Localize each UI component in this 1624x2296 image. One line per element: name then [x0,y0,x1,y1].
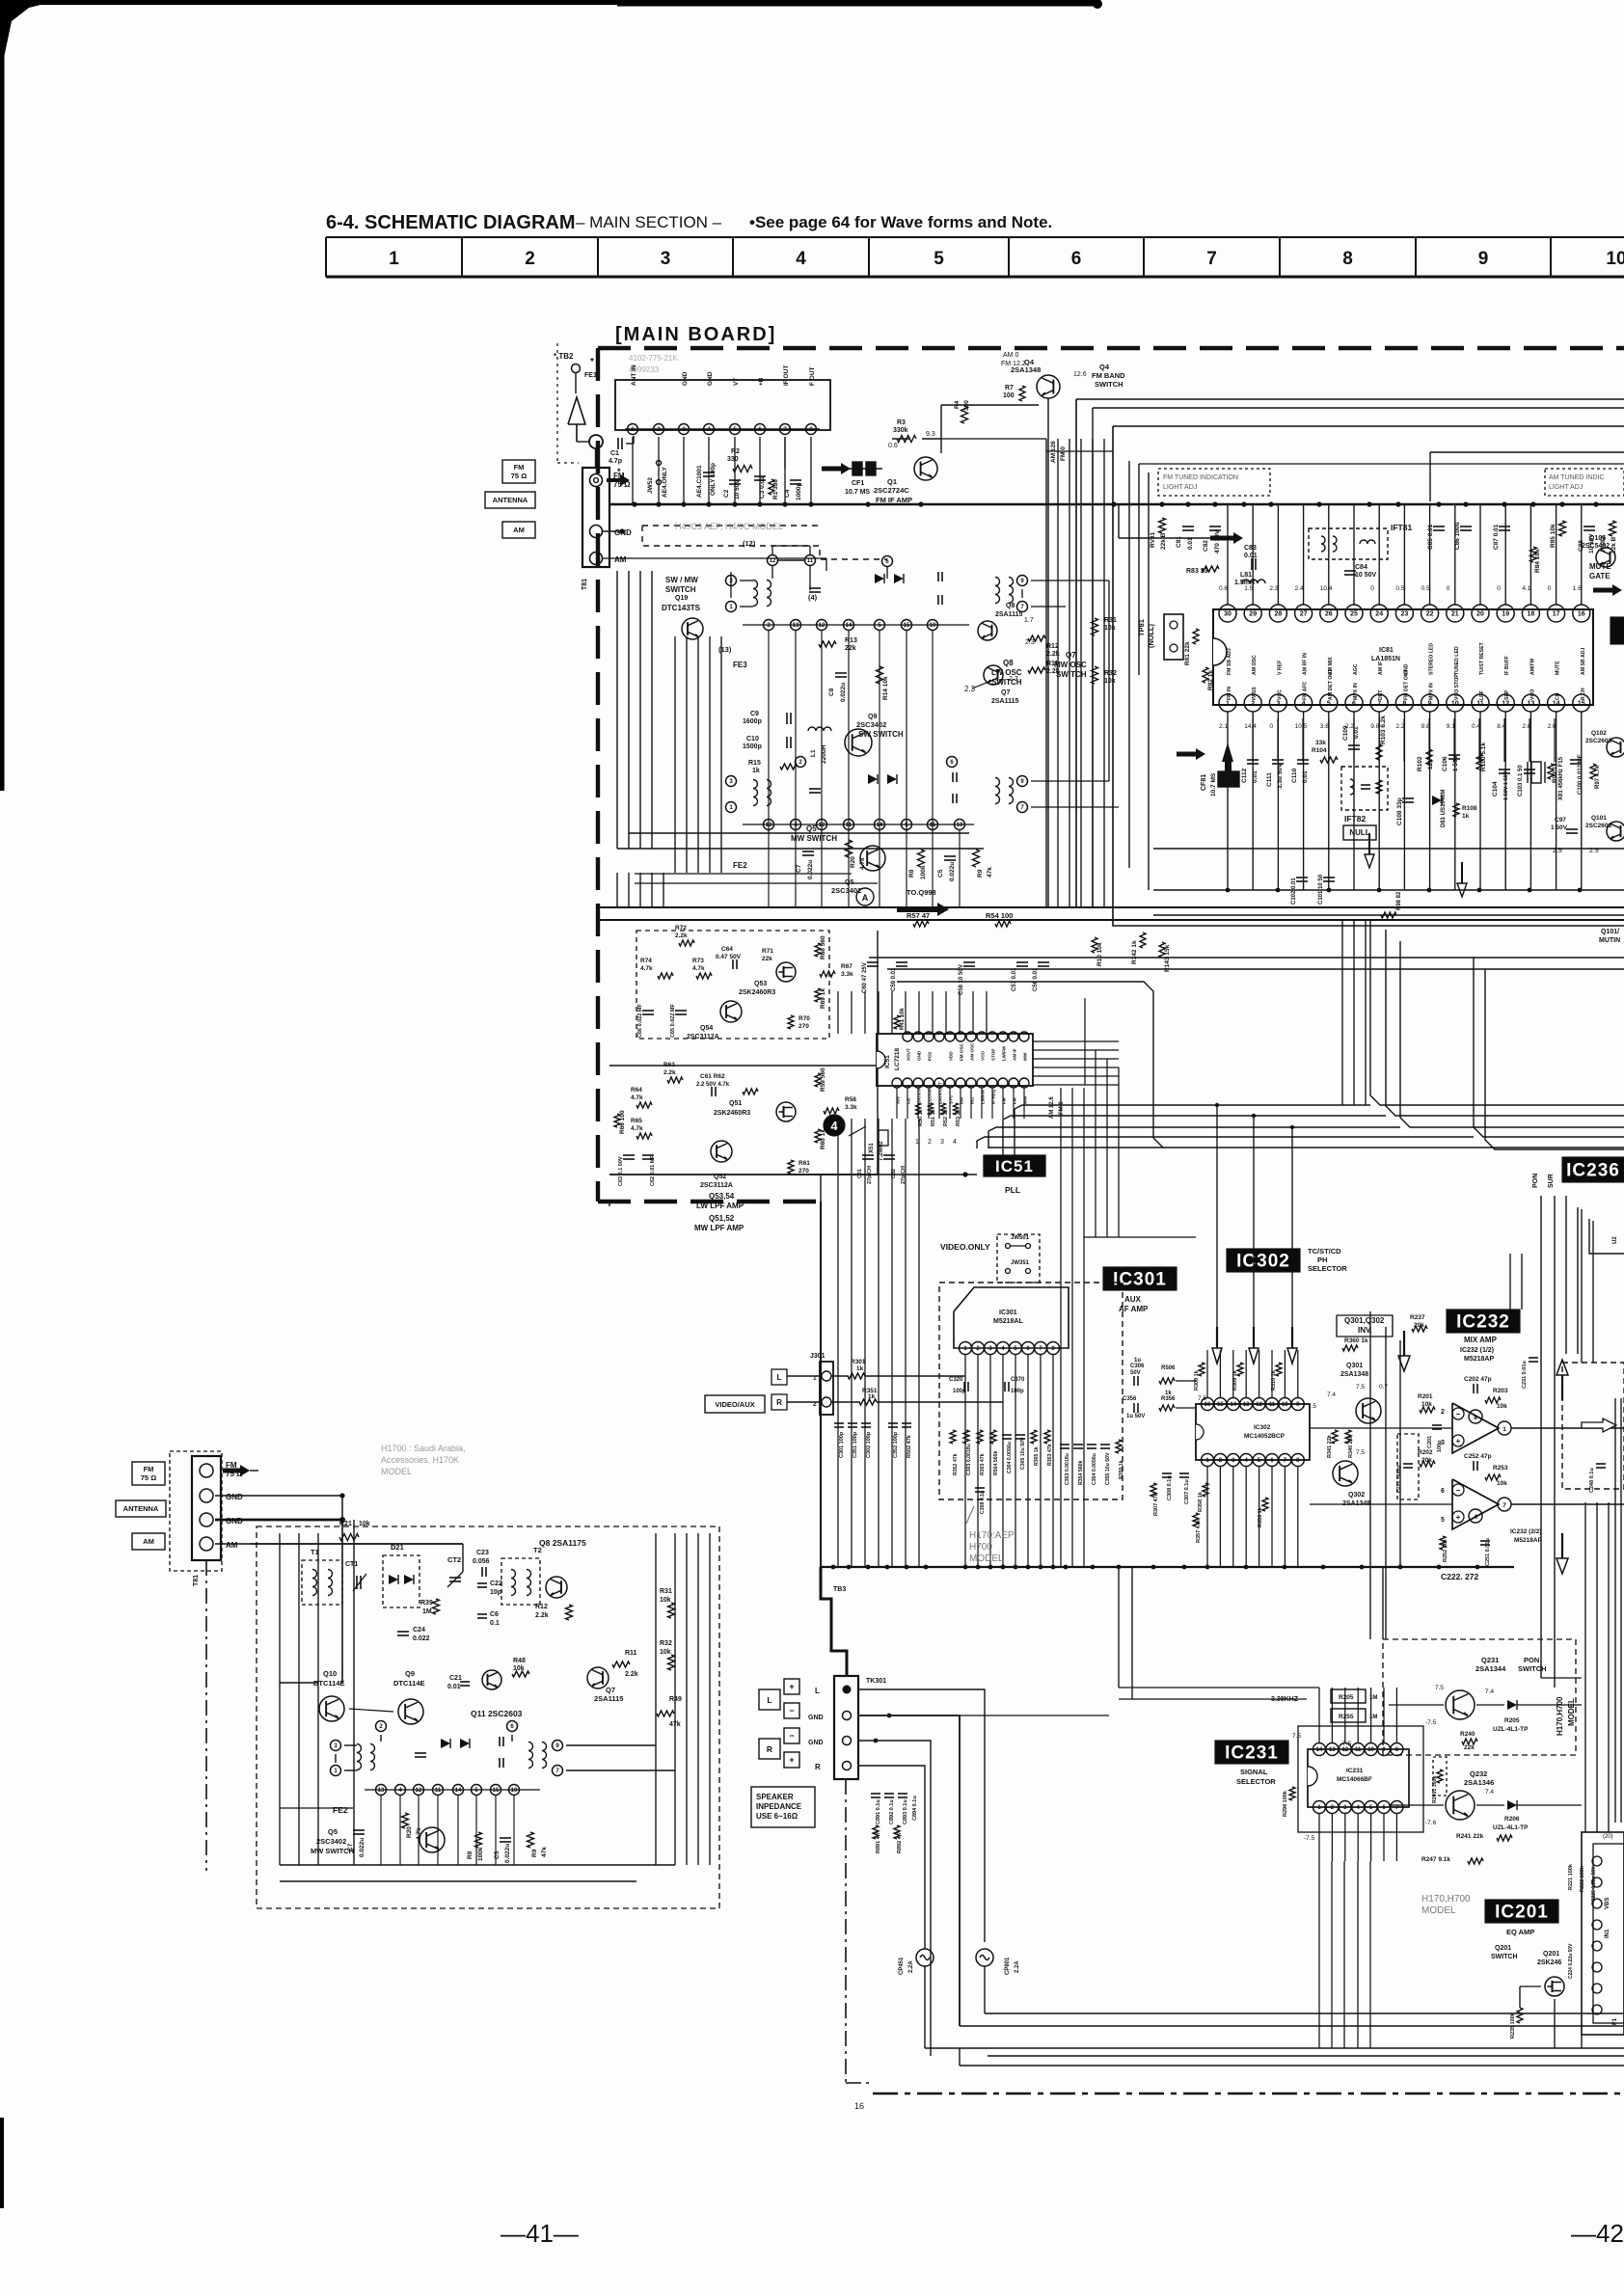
junction dots [874,1739,879,1743]
svg-text:7.5: 7.5 [1435,1685,1444,1691]
C51 C52 27p [862,1154,874,1156]
svg-text:R240: R240 [1460,1731,1475,1738]
svg-text:R: R [767,1744,772,1754]
svg-text:10 50V: 10 50V [1355,572,1377,579]
svg-text:MUTIN: MUTIN [1599,937,1620,944]
svg-text:CF81: CF81 [1201,774,1207,791]
C4 1000p [790,479,801,481]
svg-text:75 Ω: 75 Ω [141,1473,156,1482]
ANTENNA label box 2 [116,1500,166,1517]
svg-text:R66 100: R66 100 [619,1110,626,1134]
C112 0.01 [1247,759,1259,761]
svg-text:MW: MW [1023,1095,1028,1104]
link wires IC51 bus to mid horizontals [1015,1105,1370,1175]
Q231 PON switch transistor [1446,1690,1475,1719]
svg-text:R65: R65 [631,1118,642,1124]
svg-text:CT1: CT1 [345,1561,358,1568]
svg-text:10: 10 [1451,701,1459,708]
right edge nested boxes [1565,1196,1567,1354]
R21 10k [339,1534,359,1541]
svg-text:13: 13 [1243,1402,1250,1408]
svg-text:SUR: SUR [1548,1174,1555,1188]
svg-text:+: + [1456,1437,1461,1445]
svg-text:L: L [777,1373,782,1382]
svg-text:F OUT: F OUT [809,366,816,386]
svg-text:M5218AL: M5218AL [993,1318,1023,1325]
svg-text:0: 0 [1269,723,1273,730]
svg-text:SELECTOR: SELECTOR [1308,1264,1347,1273]
R50-R53 1k resistors [916,1103,921,1115]
IC81 body [1213,609,1593,705]
output wires from opamps [1511,1427,1624,1429]
TK301 speaker connector [834,1676,858,1779]
R85 10k [1559,521,1566,536]
long vertical wires center [674,636,676,873]
svg-text:0.022: 0.022 [413,1635,430,1642]
svg-text:FM SB ADJ: FM SB ADJ [1227,648,1232,675]
svg-text:AUX: AUX [1124,1295,1142,1304]
svg-text:15: 15 [1578,701,1585,708]
svg-text:FM: FM [1002,1097,1007,1104]
FE2 coils right [995,778,1000,804]
J301 connector [820,1362,833,1415]
FE3 coils left [753,581,758,607]
svg-text:IN1: IN1 [1605,1929,1610,1938]
svg-text:IC51: IC51 [884,1055,891,1068]
wires IC201 area [1520,1985,1541,1987]
svg-text:R13: R13 [845,637,857,644]
svg-text:R357 47k: R357 47k [1196,1519,1202,1543]
svg-text:R8: R8 [908,869,915,878]
svg-text:MIX AMP: MIX AMP [1464,1336,1498,1344]
svg-text:Q8: Q8 [1006,603,1015,609]
FE2b top pins [376,1721,387,1732]
FE1 block outline [615,380,830,430]
IC302 top pins 16..9 [1202,1398,1214,1411]
C81 0.01 cap [1182,526,1194,527]
svg-text:2SA1115: 2SA1115 [995,611,1023,618]
svg-text:R206: R206 [1504,1816,1520,1823]
C2 10 50V [729,479,741,481]
svg-text:C894 0.1u: C894 0.1u [912,1796,918,1821]
svg-text:C8: C8 [828,688,835,696]
R98 82 [1381,912,1396,918]
svg-text:R237: R237 [1410,1314,1425,1321]
R58 3.3k [824,1108,839,1114]
svg-text:C302 100p: C302 100p [866,1431,872,1458]
hollow arrow down at left of IC232 [1403,1331,1405,1356]
svg-text:CLOCK: CLOCK [928,1088,933,1104]
L1 220uH coil [808,727,831,731]
R103 6.2k [1376,744,1382,760]
svg-text:R341 22k: R341 22k [1327,1434,1333,1458]
arrow up hollow [1561,1375,1563,1400]
svg-text:3: 3 [1276,701,1280,708]
svg-text:R32: R32 [660,1640,672,1647]
svg-text:22k: 22k [762,956,772,962]
C21 0.01 [460,1681,470,1683]
svg-text:R2: R2 [731,448,740,455]
horizontal stubs connecting bundle [941,438,1046,440]
vertical dash-dot line from TK301 down [845,1779,847,2083]
svg-text:1: 1 [389,249,399,269]
svg-text:IC232 (2/2): IC232 (2/2) [1510,1528,1542,1535]
svg-text:L1: L1 [810,749,817,757]
svg-text:C222. 272: C222. 272 [1441,1572,1478,1581]
dash-dot vertical left [205,1560,207,1871]
svg-text:AM TUNED INDIC: AM TUNED INDIC [1549,474,1604,481]
R39 1M [433,1599,440,1614]
svg-text:Q5: Q5 [328,1827,338,1836]
svg-text:2SC2603: 2SC2603 [1585,823,1611,829]
wire T82 AM to FE3 [603,557,826,559]
svg-text:0.022u: 0.022u [807,860,814,879]
svg-text:R20: R20 [406,1826,413,1838]
svg-text:MPX IN: MPX IN [1353,683,1359,700]
svg-text:C6: C6 [490,1611,499,1618]
svg-text:7.4: 7.4 [1327,1391,1336,1398]
svg-text:1600p: 1600p [743,718,762,725]
svg-text:+: + [789,1682,794,1691]
C222 1000p dashed [1397,1434,1419,1499]
svg-text:C81: C81 [1176,536,1182,548]
svg-text:R305 1k: R305 1k [1034,1446,1040,1466]
svg-text:1 50V 1 50V: 1 50V 1 50V [1503,770,1509,800]
svg-text:100p: 100p [1011,1389,1024,1394]
svg-text:R84 10k: R84 10k [1534,549,1541,573]
svg-text:−: − [1456,1486,1461,1495]
long wires to IC302 [1176,1380,1196,1382]
svg-text:F1: F1 [1612,2017,1618,2025]
R235 100k [1517,2008,1523,2023]
svg-text:11: 11 [1355,1747,1362,1753]
svg-text:+: + [789,1755,794,1765]
svg-text:*: * [590,357,594,367]
svg-text:4: 4 [1474,1514,1477,1521]
C111 3.3u 50V [1272,759,1284,761]
svg-text:LIGHT ADJ: LIGHT ADJ [1549,484,1583,491]
C24 0.022 [397,1631,409,1633]
svg-text:75 Ω: 75 Ω [511,472,527,480]
svg-text:−: − [789,1706,794,1715]
svg-text:9: 9 [1478,249,1489,269]
FE2 left pins [726,776,737,787]
main board dashed outline top [598,346,1624,350]
svg-text:C224 0.22u 50V: C224 0.22u 50V [1568,1943,1574,1979]
svg-text:R241 22k: R241 22k [1456,1833,1484,1840]
svg-text:Q10: Q10 [323,1669,337,1678]
svg-text:C305 10u 50V: C305 10u 50V [1020,1437,1026,1470]
svg-text:16: 16 [1578,611,1585,618]
svg-text:22k B: 22k B [1160,532,1167,550]
svg-text:AM SB ADJ: AM SB ADJ [1581,648,1586,675]
R142 1k R143 15k [1140,932,1146,948]
R41 10k [894,1015,900,1029]
svg-text:AM: AM [143,1537,154,1546]
svg-text:11: 11 [1269,1402,1276,1408]
R74 R73 resistors [658,973,673,979]
svg-text:1k: 1k [868,1393,876,1400]
svg-text:27: 27 [1300,611,1308,618]
right frame extra verticals [1148,473,1150,890]
svg-text:R12: R12 [1046,643,1059,650]
svg-text:JW351: JW351 [1011,1260,1030,1266]
IC231 top pins 14..8 [1313,1743,1326,1756]
front-end internal verticals [279,1533,281,1865]
svg-text:14: 14 [1553,701,1560,708]
svg-text:TU/ST RESET: TU/ST RESET [1479,641,1485,675]
svg-text:C104: C104 [1492,781,1499,797]
lamp wires down [924,1966,926,2048]
svg-text:2SA1346: 2SA1346 [1464,1778,1494,1787]
FE2b bottom pin row [376,1785,387,1796]
R12 2.2k bottom left [566,1605,573,1620]
svg-text:R54 100: R54 100 [986,911,1013,920]
svg-text:+: + [1456,1513,1461,1522]
mid horizontal wires at IC232 level [1310,1427,1452,1429]
svg-text:C66 0.022 MF: C66 0.022 MF [637,1004,643,1038]
R356 1k [1159,1405,1175,1411]
svg-text:R83 33: R83 33 [1186,568,1208,575]
svg-text:AM 0: AM 0 [1003,352,1018,359]
tall IC right edge [1582,1832,1624,2035]
component cluster under IC301 right [1060,1444,1069,1445]
C306 1u 50V [1133,1376,1135,1386]
svg-text:•See page 64 for Wave forms an: •See page 64 for Wave forms and Note. [749,213,1052,231]
svg-text:2.2 50V 4.7k: 2.2 50V 4.7k [696,1082,730,1088]
svg-text:7.5: 7.5 [1308,1403,1316,1410]
svg-text:ANTENNA: ANTENNA [123,1504,159,1513]
left vertical wires from connector area [616,571,618,849]
svg-text:R309 1k: R309 1k [1232,1369,1238,1391]
svg-text:R235 100k: R235 100k [1510,2012,1516,2039]
svg-text:FM 0: FM 0 [1060,446,1067,461]
R203 10k [1485,1397,1501,1403]
svg-text:1.5: 1.5 [1244,585,1253,592]
svg-text:2.4: 2.4 [1295,585,1304,592]
svg-text:T81: T81 [582,579,588,590]
svg-text:IFT81: IFT81 [1391,523,1412,532]
svg-text:FM 12.2: FM 12.2 [1001,361,1026,367]
wire corners to right bus [985,2012,1624,2014]
C231 0.01u vertical [1529,1357,1538,1359]
svg-text:47k: 47k [541,1847,548,1857]
svg-text:C62 0.01 MF: C62 0.01 MF [650,1155,656,1186]
svg-text:2: 2 [1251,701,1255,708]
svg-text:C7: C7 [796,864,802,873]
svg-text:10k: 10k [1421,1401,1432,1408]
svg-text:XIN: XIN [896,1096,901,1104]
svg-text:Q1: Q1 [887,477,897,486]
svg-text:6: 6 [1071,249,1082,269]
C8 0.022u vertical [835,672,847,674]
transistor Q4 FM band switch [1037,375,1060,398]
IC301 pins 1-8 [960,1342,972,1355]
svg-text:10.7 MS: 10.7 MS [845,489,870,496]
svg-text:7.5: 7.5 [1292,1733,1301,1740]
wire Q4 down [1047,398,1049,907]
svg-text:2: 2 [1441,1409,1445,1416]
svg-text:AM/FM: AM/FM [1529,659,1535,675]
svg-text:V REF: V REF [1277,661,1283,675]
vertical bundle left of IC81 [1045,439,1047,907]
C10 1500p [786,737,788,748]
svg-text:30: 30 [1224,611,1232,618]
svg-text:FM TUNED INDICATION: FM TUNED INDICATION [1163,474,1238,481]
svg-text:R51 1k: R51 1k [931,1108,936,1126]
svg-text:X81 456kHz F15: X81 456kHz F15 [1558,756,1564,800]
R9 47k vertical [973,850,980,867]
AEP model dashed region [642,525,820,527]
Q102 transistor right edge [1607,738,1624,757]
IC81 bottom pin row 1..15 [1219,694,1236,712]
svg-text:SPEAKER: SPEAKER [756,1793,794,1801]
R48 10k [512,1671,529,1677]
svg-text:C106: C106 [1442,756,1448,771]
svg-text:Q11 2SC2603: Q11 2SC2603 [471,1709,523,1718]
svg-text:C103 0.1 50: C103 0.1 50 [1518,765,1524,797]
svg-text:C301 100p: C301 100p [839,1431,845,1458]
Q101 transistor right edge [1607,822,1624,841]
connector T82 body [582,468,609,567]
arrow on FM line [822,467,843,472]
svg-text:C101 10 50: C101 10 50 [1318,874,1324,905]
black circled 4 [824,1115,845,1136]
svg-text:FM: FM [1013,1097,1017,1104]
svg-text:TB3: TB3 [833,1586,846,1593]
svg-text:MW LPF AMP: MW LPF AMP [694,1224,744,1232]
svg-text:USE 6~16Ω: USE 6~16Ω [756,1812,798,1821]
svg-text:4.1: 4.1 [1522,585,1530,592]
svg-text:IF OUT: IF OUT [783,365,790,386]
FE2b right pins [553,1741,563,1751]
svg-text:R41 10k: R41 10k [900,1008,906,1030]
svg-text:25: 25 [1350,611,1358,618]
svg-text:1 50V: 1 50V [1551,824,1568,831]
svg-text:22: 22 [1426,611,1434,618]
svg-text:C5: C5 [494,1850,501,1859]
svg-text:R104: R104 [1312,747,1327,754]
svg-text:C4: C4 [784,489,791,498]
svg-text:1M: 1M [1369,1715,1377,1720]
svg-text:C251 0.01u: C251 0.01u [1485,1538,1491,1566]
Q53 LPF fet [776,962,796,982]
svg-text:VCC: VCC [1277,689,1283,700]
C88 10 50V [1583,526,1595,527]
R minus plus boxes [784,1728,799,1743]
FE3 bottom pin row wire [743,624,969,626]
svg-text:0.01: 0.01 [1252,770,1259,783]
svg-text:MODEL: MODEL [381,1467,412,1476]
svg-text:C222 1000p *: C222 1000p * [1396,1461,1402,1493]
svg-text:(12): (12) [743,539,756,548]
svg-text:PON: PON [1532,1174,1539,1188]
svg-text:0.6: 0.6 [1219,585,1228,592]
main board dashed outline bottom-left [598,1200,821,1203]
svg-text:1k: 1k [752,768,760,774]
svg-text:R143 15k: R143 15k [1164,944,1171,972]
Q5b transistor [420,1827,445,1852]
R99 1k [1548,764,1554,779]
svg-text:18: 18 [1528,611,1535,618]
svg-text:X51: X51 [869,1143,875,1153]
thick wire TB3 down [820,1202,822,1567]
svg-text:R1 330: R1 330 [772,479,779,500]
svg-text:R9: R9 [531,1849,538,1857]
svg-text:GATE: GATE [1589,572,1610,581]
svg-text:VCO STOP: VCO STOP [1454,674,1460,700]
svg-text:VBS: VBS [1605,1898,1610,1909]
svg-text:FM IN: FM IN [1227,687,1232,700]
FE3 bottom pin drops [768,631,770,833]
svg-text:0.022u: 0.022u [840,683,847,702]
svg-text:C64: C64 [721,946,733,953]
svg-text:7.5: 7.5 [1198,1395,1206,1402]
svg-text:(20): (20) [1603,1834,1613,1840]
svg-text:0.6: 0.6 [888,443,898,449]
svg-text:AM OSC: AM OSC [970,1042,975,1061]
FE1 pin row 1-8 [625,428,820,430]
svg-text:3.8: 3.8 [1320,723,1329,730]
svg-text:R255: R255 [1339,1714,1354,1720]
C103 0.1 50 [1524,769,1535,770]
svg-text:Q51: Q51 [729,1100,742,1107]
op-amp U232a triangle [1452,1403,1499,1453]
horizontal wires left block [617,848,984,850]
svg-text:2.3: 2.3 [964,685,976,693]
svg-text:1 50V: 1 50V [1452,754,1459,771]
FE3 capacitor mid [809,587,821,589]
R506 1k [1159,1378,1175,1384]
Q301 inverter transistor [1356,1398,1381,1423]
svg-text:Q53: Q53 [754,981,767,987]
svg-text:R70: R70 [798,1015,810,1022]
svg-text:PON: PON [1524,1656,1539,1664]
svg-text:5: 5 [934,249,944,269]
FM TUNED INDICATION LIGHT ADJ dotted box [1158,469,1270,496]
R252 20k C251 [1440,1536,1446,1550]
svg-text:C51: C51 [857,1169,863,1178]
svg-text:15: 15 [904,623,910,629]
C891-R892 cluster [871,1793,880,1795]
svg-text:SIGNAL: SIGNAL [1240,1768,1268,1776]
svg-text:R354 560k: R354 560k [1078,1461,1084,1485]
svg-text:C2: C2 [723,489,730,498]
svg-text:2SC2603: 2SC2603 [1585,738,1611,744]
Q54 transistor [720,1001,742,1022]
svg-text:R108: R108 [1462,805,1477,812]
FE3 interconnect wires [730,572,732,598]
AM label box 2 [132,1533,165,1550]
svg-text:C1: C1 [610,450,619,457]
svg-text:4.7k: 4.7k [640,965,653,972]
svg-text:VCO: VCO [1529,689,1535,700]
svg-text:20k: 20k [1421,1457,1432,1464]
R240 22k [1462,1739,1477,1744]
svg-text:VDD: VDD [949,1051,954,1061]
L plus minus boxes [784,1679,799,1694]
right side verticals front-end [655,1533,657,1865]
svg-text:VT: VT [733,378,740,386]
C84 10 50V [1344,570,1356,572]
C23 0.056 [481,1567,483,1577]
C9 1600p [786,713,788,724]
svg-text:R69 1k: R69 1k [820,988,826,1009]
horizontal wires upper front-end [250,1470,258,1472]
svg-text:12: 12 [770,558,776,564]
R31 10k bottom-left [668,1603,675,1618]
R14 10k vertical [877,666,883,684]
